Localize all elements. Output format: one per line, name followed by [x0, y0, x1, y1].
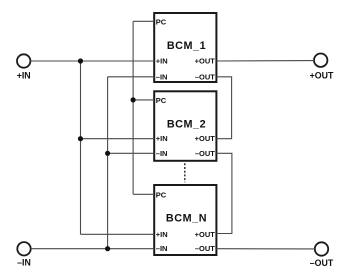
svg-text:–OUT: –OUT: [310, 258, 334, 268]
module BCM_N: [154, 185, 216, 255]
wire BCM_N -OUT to -OUT terminal: [216, 248, 314, 250]
svg-text:PC: PC: [156, 18, 167, 27]
node junction +IN bus at BCM_2: [78, 136, 83, 141]
terminal +IN: [17, 54, 31, 80]
node junction -IN bus at BCM_2: [105, 151, 110, 156]
wire PC bus to BCM_1 PC: [133, 20, 154, 22]
module BCM_2: [154, 91, 216, 161]
node junction PC bus at BCM_2: [131, 97, 136, 102]
svg-text:–OUT: –OUT: [195, 149, 215, 158]
node junction -IN bus at -IN wire: [105, 246, 110, 251]
wire BCM_2 -OUT to BCM_N +OUT (series link): [216, 153, 232, 233]
wire PC bus to BCM_N PC: [133, 193, 154, 195]
svg-text:–IN: –IN: [156, 149, 168, 158]
wire +IN bus vertical: [80, 61, 82, 234]
terminal +OUT: [310, 54, 334, 81]
svg-text:–OUT: –OUT: [195, 244, 215, 253]
wire BCM_1 +OUT to +OUT terminal: [216, 60, 314, 62]
wire +IN bus to BCM_2 +IN: [81, 138, 155, 140]
wire -IN bus to BCM_2 -IN: [108, 152, 155, 154]
terminal -IN: [17, 242, 31, 267]
svg-text:+OUT: +OUT: [195, 134, 216, 143]
wire BCM_1 -OUT to BCM_2 +OUT (series link): [216, 77, 231, 139]
wire -IN bus to BCM_1 -IN: [108, 76, 155, 78]
wire +IN bus to BCM_N +IN: [81, 233, 155, 235]
wire -IN bus vertical: [107, 77, 109, 249]
wire -IN terminal to BCM_N -IN: [31, 248, 155, 250]
svg-text:BCM_1: BCM_1: [167, 40, 206, 52]
terminal -OUT: [310, 242, 334, 268]
svg-text:+OUT: +OUT: [310, 70, 334, 80]
wire PC bus to BCM_2 PC: [133, 99, 154, 101]
ellipsis dotted line between BCM_2 and BCM_N: [184, 163, 186, 182]
module BCM_1: [154, 13, 216, 82]
svg-text:–OUT: –OUT: [195, 72, 215, 81]
svg-text:–IN: –IN: [17, 257, 31, 267]
svg-text:+IN: +IN: [156, 134, 168, 143]
svg-text:+IN: +IN: [156, 230, 168, 239]
svg-text:BCM_N: BCM_N: [166, 213, 207, 225]
node junction +IN bus top: [78, 58, 83, 63]
wire PC bus vertical: [132, 21, 134, 194]
svg-text:+OUT: +OUT: [195, 57, 216, 66]
svg-text:+OUT: +OUT: [195, 230, 216, 239]
svg-text:PC: PC: [156, 96, 167, 105]
svg-text:PC: PC: [156, 191, 167, 200]
svg-text:+IN: +IN: [156, 57, 168, 66]
svg-text:BCM_2: BCM_2: [167, 118, 206, 130]
svg-text:–IN: –IN: [156, 244, 168, 253]
wire +IN terminal to BCM_1 +IN: [30, 60, 154, 62]
svg-text:+IN: +IN: [17, 71, 31, 81]
svg-text:–IN: –IN: [156, 72, 168, 81]
